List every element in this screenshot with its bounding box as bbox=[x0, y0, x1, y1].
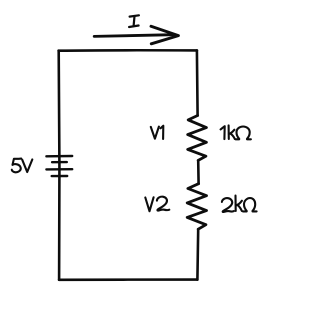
resistor R1 bbox=[188, 116, 207, 161]
wire top bbox=[59, 49, 197, 52]
label 2k ohm value of R2 bbox=[222, 196, 257, 212]
wire bottom bbox=[59, 278, 197, 281]
wire right middle bbox=[197, 160, 200, 183]
label 5V bbox=[12, 159, 33, 173]
battery plate short bbox=[52, 161, 67, 163]
label I bbox=[129, 15, 139, 27]
label V2 bbox=[145, 197, 169, 212]
current arrow shaft bbox=[94, 35, 173, 37]
battery V source plate long top bbox=[46, 155, 72, 158]
label 1k ohm value of R1 bbox=[221, 125, 251, 139]
wire right upper bbox=[196, 50, 199, 115]
label V1 bbox=[151, 126, 164, 139]
battery plate short bottom bbox=[52, 175, 67, 178]
wire left bbox=[57, 51, 60, 280]
resistor R2 bbox=[187, 184, 206, 230]
current arrow head bbox=[151, 26, 178, 44]
battery plate long bottom bbox=[46, 168, 72, 171]
wire right lower bbox=[196, 229, 199, 279]
